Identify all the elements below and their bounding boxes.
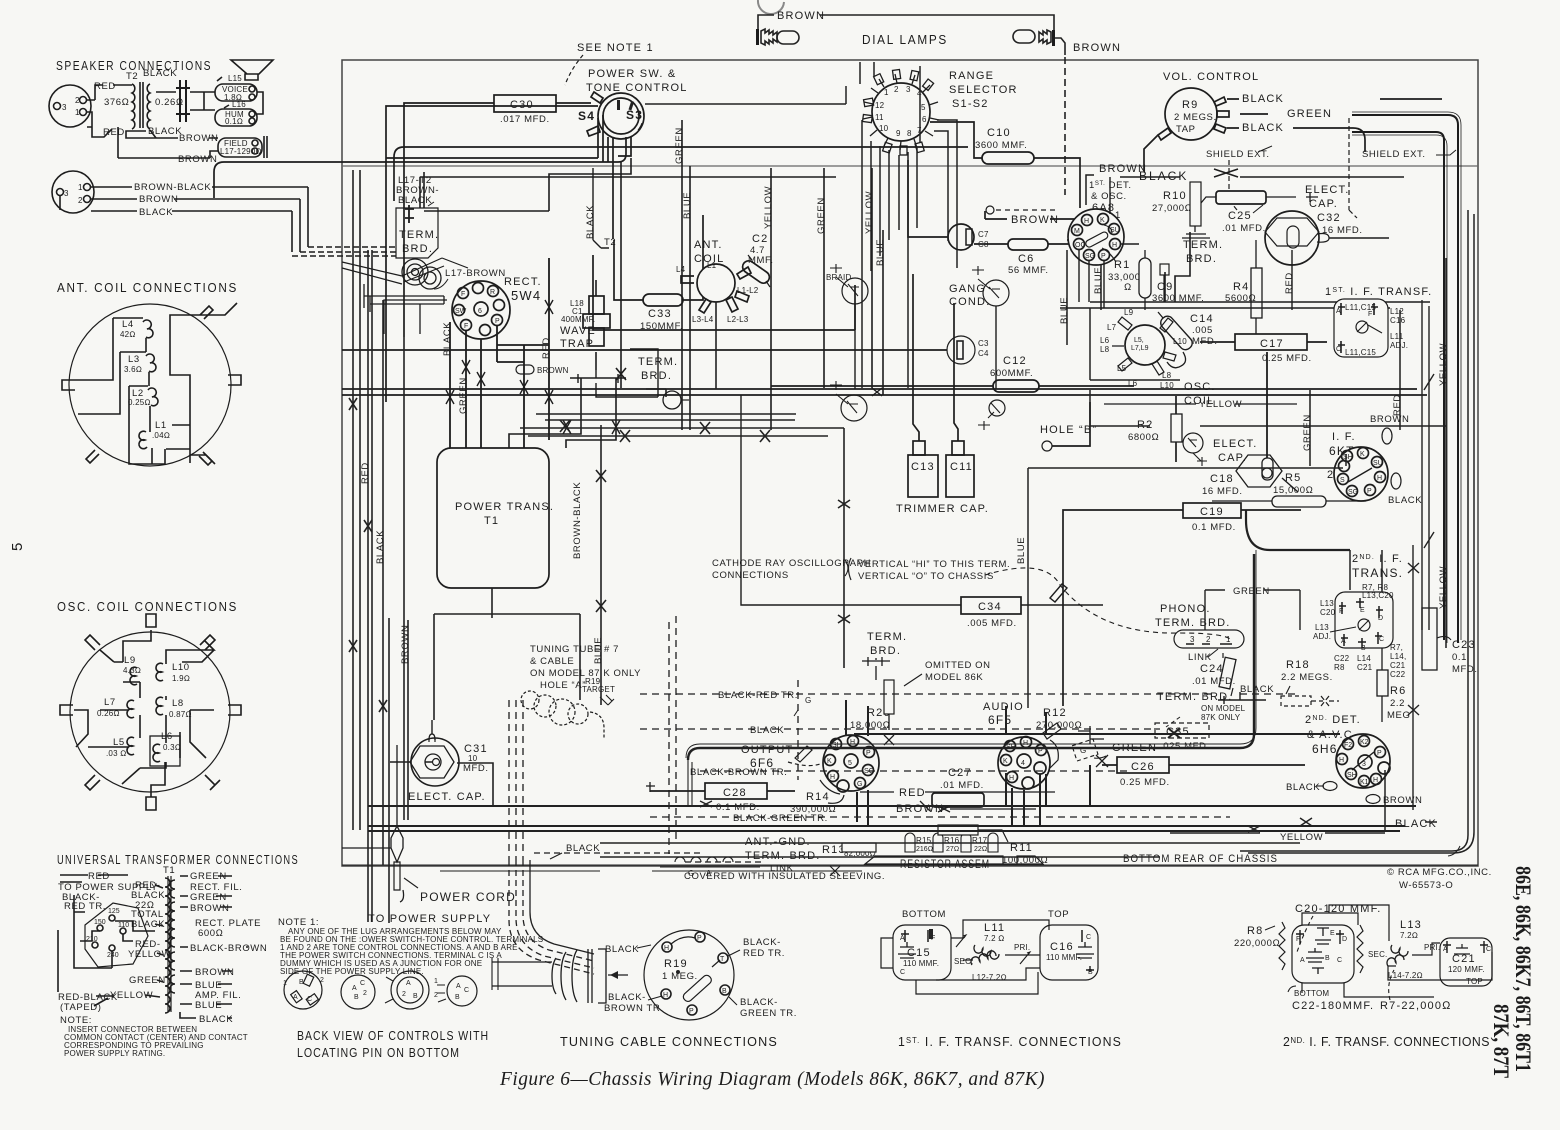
wire: right border curves <box>1240 210 1474 856</box>
svg-text:TARGET: TARGET <box>582 685 615 694</box>
svg-text:5: 5 <box>9 541 26 551</box>
svg-text:SEC.: SEC. <box>1368 950 1387 959</box>
output 6F6 tube <box>741 735 879 794</box>
svg-text:BLUE: BLUE <box>1016 537 1027 564</box>
svg-text:CONNECTIONS: CONNECTIONS <box>712 570 789 581</box>
svg-text:0.1: 0.1 <box>1452 652 1467 663</box>
svg-text:TRANS.: TRANS. <box>1352 566 1403 580</box>
svg-text:376Ω: 376Ω <box>104 97 130 108</box>
rect 5W4 tube <box>452 276 542 339</box>
svg-text:TERM. BRD.: TERM. BRD. <box>1155 617 1231 629</box>
svg-text:K1: K1 <box>1360 779 1369 786</box>
svg-text:POWER SUPPLY RATING.: POWER SUPPLY RATING. <box>64 1049 165 1058</box>
svg-text:240: 240 <box>107 952 119 959</box>
svg-text:125: 125 <box>108 908 120 915</box>
svg-text:BLACK-GREEN TR.: BLACK-GREEN TR. <box>733 813 828 824</box>
svg-text:RED: RED <box>94 81 116 92</box>
svg-text:C17: C17 <box>1260 338 1284 350</box>
svg-text:A: A <box>1300 957 1305 964</box>
svg-text:OUTPUT: OUTPUT <box>741 744 793 756</box>
svg-text:BLACK: BLACK <box>375 530 386 564</box>
svg-text:R8: R8 <box>1334 663 1345 672</box>
C23 <box>1422 608 1478 675</box>
svg-text:RED: RED <box>103 127 125 138</box>
svg-text:T: T <box>720 956 725 963</box>
svg-text:2: 2 <box>1327 469 1334 481</box>
svg-text:H: H <box>1339 757 1344 764</box>
svg-text:BROWN: BROWN <box>190 903 229 914</box>
svg-text:ELECT. CAP.: ELECT. CAP. <box>408 791 486 803</box>
svg-text:K: K <box>1360 451 1365 458</box>
lugs <box>60 614 241 810</box>
svg-text:SG: SG <box>1085 253 1095 260</box>
svg-text:C25: C25 <box>1228 210 1252 222</box>
1st IF transf connections <box>881 909 1098 994</box>
svg-text:VERTICAL “HI” TO THIS TERM.: VERTICAL “HI” TO THIS TERM. <box>858 559 1010 570</box>
svg-text:.017 MFD.: .017 MFD. <box>500 114 550 125</box>
svg-text:L8: L8 <box>1162 371 1172 380</box>
svg-text:C: C <box>1486 946 1491 953</box>
svg-text:BROWN: BROWN <box>139 194 178 205</box>
svg-text:C21: C21 <box>1390 661 1406 670</box>
svg-text:BLACK: BLACK <box>143 68 177 79</box>
svg-text:L3: L3 <box>128 354 140 365</box>
C19 <box>1063 503 1301 706</box>
svg-text:G: G <box>805 696 811 705</box>
svg-text:H: H <box>830 774 835 781</box>
svg-text:Figure 6—Chassis Wiring Diagra: Figure 6—Chassis Wiring Diagram (Models … <box>499 1068 1045 1090</box>
wire: main chassis border <box>342 60 1478 866</box>
svg-text:& CABLE: & CABLE <box>530 656 574 667</box>
svg-text:R9: R9 <box>1182 99 1198 111</box>
brown pill <box>516 365 534 374</box>
svg-text:GREEN: GREEN <box>674 127 685 164</box>
cathode ray text <box>712 558 1232 641</box>
lamp left <box>756 29 799 45</box>
svg-text:BLACK-: BLACK- <box>608 992 646 1003</box>
svg-text:5W4: 5W4 <box>511 288 541 303</box>
svg-text:F2: F2 <box>1344 742 1352 749</box>
svg-text:9: 9 <box>896 129 901 138</box>
svg-text:PHONO.: PHONO. <box>1160 603 1211 615</box>
wires speaker plug to T2 <box>87 85 156 138</box>
svg-text:P: P <box>495 318 500 325</box>
wire: hatched shield bundle center <box>686 550 1256 806</box>
svg-text:ANT. COIL CONNECTIONS: ANT. COIL CONNECTIONS <box>57 281 238 295</box>
svg-text:150: 150 <box>94 919 106 926</box>
svg-text:600Ω: 600Ω <box>198 928 224 939</box>
svg-text:SHIELD EXT.: SHIELD EXT. <box>1362 149 1426 160</box>
svg-text:BLACK: BLACK <box>1139 169 1188 183</box>
svg-text:2ND. I. F.: 2ND. I. F. <box>1352 553 1403 565</box>
power transformer T1 <box>437 448 549 588</box>
svg-text:POWER CORD: POWER CORD <box>420 890 516 904</box>
2nd IF transf connections <box>1234 903 1492 1012</box>
svg-text:1: 1 <box>75 108 80 117</box>
svg-text:L14: L14 <box>1357 654 1371 663</box>
R18 <box>1281 659 1339 706</box>
tuning cable curls <box>521 691 604 738</box>
svg-text:P: P <box>866 750 871 757</box>
svg-text:C20: C20 <box>1320 608 1336 617</box>
svg-text:G: G <box>857 781 862 788</box>
svg-text:L1: L1 <box>155 420 167 431</box>
svg-text:2: 2 <box>434 992 438 999</box>
svg-text:C: C <box>1379 636 1384 643</box>
svg-text:H: H <box>1023 740 1028 747</box>
svg-text:BLACK-: BLACK- <box>740 997 778 1008</box>
svg-text:L11: L11 <box>984 922 1005 934</box>
wave trap <box>560 280 610 370</box>
svg-text:C19: C19 <box>1200 506 1224 518</box>
R15 R16 R17 <box>905 833 998 853</box>
svg-text:SH: SH <box>1347 772 1357 779</box>
svg-text:LOCATING PIN ON BOTTOM: LOCATING PIN ON BOTTOM <box>297 1045 460 1060</box>
svg-text:RECT.: RECT. <box>504 276 542 288</box>
svg-text:C4: C4 <box>978 349 989 358</box>
svg-text:P: P <box>689 1008 694 1015</box>
svg-text:2ND. DET.: 2ND. DET. <box>1305 714 1361 726</box>
svg-text:ANT.-GND.: ANT.-GND. <box>745 836 811 848</box>
svg-text:BRD.: BRD. <box>641 370 672 382</box>
svg-text:W-65573-O: W-65573-O <box>1399 880 1453 891</box>
svg-text:R8: R8 <box>1247 925 1263 937</box>
svg-text:BRD.: BRD. <box>402 243 433 255</box>
ANT COIL CONNECTIONS <box>57 281 241 466</box>
svg-text:SEE NOTE 1: SEE NOTE 1 <box>577 42 654 54</box>
svg-text:1 MEG.: 1 MEG. <box>662 971 698 982</box>
svg-text:COVERED WITH INSULATED SLEEVIN: COVERED WITH INSULATED SLEEVING. <box>684 871 885 882</box>
svg-text:6H6: 6H6 <box>1312 742 1338 756</box>
R2 <box>1128 396 1182 462</box>
dashed TR wires <box>509 616 1300 860</box>
svg-text:1: 1 <box>1226 635 1231 644</box>
elect cap C32 <box>1265 184 1389 310</box>
svg-text:L11: L11 <box>1390 332 1404 341</box>
node: main left area <box>342 120 886 588</box>
svg-text:BROWN: BROWN <box>1073 42 1121 54</box>
svg-text:H: H <box>1009 775 1014 782</box>
svg-text:C30: C30 <box>510 99 534 111</box>
svg-text:L15: L15 <box>228 74 242 83</box>
plug P2 <box>52 171 94 213</box>
svg-text:R19: R19 <box>664 958 688 970</box>
svg-text:0.1Ω: 0.1Ω <box>225 117 243 126</box>
svg-text:27,000Ω: 27,000Ω <box>1152 203 1193 214</box>
heavy horizontals below 6A8 <box>1060 232 1430 308</box>
svg-text:ELECT.: ELECT. <box>1213 438 1258 450</box>
svg-text:2: 2 <box>75 96 80 105</box>
svg-text:A: A <box>1341 638 1346 645</box>
svg-text:© RCA MFG.CO.,INC.: © RCA MFG.CO.,INC. <box>1387 867 1492 878</box>
svg-text:GREEN TR.: GREEN TR. <box>740 1008 797 1019</box>
svg-text:R: R <box>490 289 495 296</box>
svg-text:RED TR.: RED TR. <box>743 948 785 959</box>
shield ext left label <box>1206 146 1272 210</box>
svg-text:8: 8 <box>907 129 912 138</box>
terminal left of 5W4 <box>364 284 444 312</box>
svg-text:SU: SU <box>1373 460 1383 467</box>
C28 <box>646 782 795 813</box>
svg-text:1ST. I. F. TRANSF. CONNECTION: 1ST. I. F. TRANSF. CONNECTIONS <box>898 1034 1122 1049</box>
hole B <box>1040 402 1097 451</box>
crossover symbols <box>446 300 553 404</box>
svg-text:H: H <box>1084 218 1089 225</box>
elect cap C18 hex <box>1202 352 1298 497</box>
note 1 <box>278 917 543 976</box>
svg-text:F: F <box>464 323 468 330</box>
C2 capacitor <box>740 233 773 287</box>
svg-text:L17-BROWN: L17-BROWN <box>445 268 506 279</box>
svg-text:BLACK: BLACK <box>139 207 173 218</box>
svg-text:& OSC.: & OSC. <box>1091 191 1127 202</box>
wire: center vertical bundle under T1 <box>434 302 850 806</box>
2nd IF trans <box>1313 553 1406 679</box>
svg-text:RED: RED <box>899 787 926 799</box>
svg-text:22Ω: 22Ω <box>974 846 987 853</box>
svg-text:BLACK: BLACK <box>1242 93 1284 105</box>
capacitor C30 <box>404 95 591 337</box>
svg-text:BLACK: BLACK <box>1240 684 1274 695</box>
svg-text:TOP: TOP <box>1466 977 1483 986</box>
svg-text:R10: R10 <box>1163 190 1187 202</box>
bottom view of 2nd IF <box>1292 925 1354 983</box>
svg-text:T1: T1 <box>484 515 499 527</box>
svg-text:H: H <box>1377 475 1382 482</box>
svg-text:K: K <box>1003 758 1008 765</box>
wires to field <box>118 127 218 158</box>
internal wiring <box>75 303 237 464</box>
svg-text:1: 1 <box>283 980 287 987</box>
svg-text:L4: L4 <box>122 319 134 330</box>
svg-text:12: 12 <box>875 101 885 110</box>
svg-text:2: 2 <box>320 977 324 984</box>
svg-text:VOL. CONTROL: VOL. CONTROL <box>1163 71 1259 83</box>
svg-text:6800Ω: 6800Ω <box>1128 432 1159 443</box>
four control circles <box>283 971 477 1009</box>
svg-text:R5: R5 <box>1285 472 1301 484</box>
svg-text:T2: T2 <box>604 237 616 248</box>
svg-text:HOLE “A”: HOLE “A” <box>540 680 586 691</box>
svg-text:B: B <box>722 988 727 995</box>
svg-text:BLACK: BLACK <box>1242 122 1284 134</box>
svg-text:6: 6 <box>922 115 927 124</box>
svg-text:R11: R11 <box>1010 842 1033 854</box>
svg-text:S1-S2: S1-S2 <box>952 98 989 110</box>
svg-text:L5,: L5, <box>1134 337 1144 344</box>
svg-text:POWER TRANS.: POWER TRANS. <box>455 501 554 513</box>
svg-text:BLACK: BLACK <box>1395 818 1437 830</box>
svg-text:YELLOW: YELLOW <box>1280 832 1323 843</box>
svg-text:TERM. BRD.: TERM. BRD. <box>745 850 821 862</box>
svg-text:0.1 MFD.: 0.1 MFD. <box>716 802 760 813</box>
svg-text:R7,: R7, <box>1390 643 1403 652</box>
svg-text:D: D <box>1378 615 1383 622</box>
svg-text:R7-22,000Ω: R7-22,000Ω <box>1380 1000 1452 1012</box>
wire: selector verticals <box>645 62 957 388</box>
transformer T2 speaker <box>104 68 184 129</box>
node: dial lamps group <box>756 0 1121 195</box>
wire: left border bundle <box>349 170 411 923</box>
G box dashed <box>1072 739 1098 761</box>
svg-text:ANT.: ANT. <box>694 239 723 251</box>
svg-text:BLACK: BLACK <box>442 322 453 356</box>
C3 C4 trimmer <box>342 336 989 364</box>
C26 <box>1102 757 1305 788</box>
svg-text:C22: C22 <box>1390 670 1406 679</box>
svg-text:C10: C10 <box>987 127 1011 139</box>
svg-text:BLACK-BROWN: BLACK-BROWN <box>190 943 267 954</box>
svg-text:WAVE: WAVE <box>560 325 596 337</box>
svg-text:S: S <box>1340 477 1345 484</box>
term brd center <box>862 631 907 680</box>
svg-text:GREEN: GREEN <box>816 197 827 234</box>
svg-text:YELLOW: YELLOW <box>1438 343 1449 386</box>
svg-text:BACK VIEW OF CONTROLS WITH: BACK VIEW OF CONTROLS WITH <box>297 1028 489 1043</box>
svg-text:OSC.: OSC. <box>1184 381 1216 393</box>
L14 coil <box>1387 955 1404 966</box>
svg-text:TERM.: TERM. <box>1183 239 1223 251</box>
svg-text:I. F.: I. F. <box>1332 431 1356 443</box>
svg-text:GREEN: GREEN <box>1287 108 1332 120</box>
svg-text:2: 2 <box>78 196 83 205</box>
svg-text:H: H <box>664 945 669 952</box>
svg-text:(TAPED): (TAPED) <box>60 1002 102 1013</box>
svg-text:L7: L7 <box>1107 323 1117 332</box>
svg-text:T1: T1 <box>163 865 175 876</box>
svg-text:TERM.: TERM. <box>399 229 439 241</box>
svg-text:C34: C34 <box>978 601 1002 613</box>
svg-text:BLACK-: BLACK- <box>743 937 781 948</box>
svg-text:16 MFD.: 16 MFD. <box>1322 225 1363 236</box>
yellow verticals right <box>1310 258 1446 648</box>
svg-text:C6: C6 <box>1018 253 1034 265</box>
svg-text:H: H <box>850 739 855 746</box>
svg-text:BOTTOM: BOTTOM <box>902 909 946 920</box>
C27 <box>932 767 984 807</box>
svg-text:BLUE: BLUE <box>593 637 604 664</box>
svg-text:C: C <box>1336 346 1341 353</box>
svg-text:C11: C11 <box>950 461 973 473</box>
svg-text:H: H <box>1112 242 1117 249</box>
svg-text:3: 3 <box>906 85 911 94</box>
svg-text:7.2 Ω: 7.2 Ω <box>984 934 1005 943</box>
svg-text:1: 1 <box>434 978 438 985</box>
svg-text:PRI.: PRI. <box>1014 943 1030 952</box>
resistor assem <box>865 856 1043 871</box>
capacitor C6 <box>974 239 1086 276</box>
svg-text:3: 3 <box>64 189 69 198</box>
svg-text:RANGE: RANGE <box>949 70 994 82</box>
svg-text:TERM. BRD.: TERM. BRD. <box>1157 691 1233 703</box>
svg-text:2.2 MEGS.: 2.2 MEGS. <box>1281 672 1333 683</box>
svg-text:400MMF.: 400MMF. <box>561 315 595 324</box>
svg-text:F: F <box>1296 936 1300 943</box>
power cord <box>342 745 516 925</box>
svg-text:BROWN TR.: BROWN TR. <box>604 1003 664 1014</box>
svg-text:216Ω: 216Ω <box>916 846 933 853</box>
svg-text:110: 110 <box>118 922 129 929</box>
svg-text:E: E <box>1360 607 1365 614</box>
top view box <box>1440 938 1492 986</box>
wire brown top <box>758 15 1054 34</box>
svg-text:0.25 MFD.: 0.25 MFD. <box>1120 777 1170 788</box>
svg-text:120 MMF.: 120 MMF. <box>1448 965 1485 974</box>
svg-text:YELLOW: YELLOW <box>1438 566 1449 609</box>
trimmer caps C13 C11 <box>896 274 989 515</box>
svg-text:.03 Ω: .03 Ω <box>106 749 127 758</box>
svg-text:GREEN: GREEN <box>1233 586 1270 597</box>
svg-text:S4: S4 <box>578 109 595 123</box>
svg-text:L6: L6 <box>1100 336 1110 345</box>
svg-text:56 MMF.: 56 MMF. <box>1008 265 1049 276</box>
svg-text:RED: RED <box>541 337 552 359</box>
svg-text:L13: L13 <box>1315 623 1329 632</box>
capacitor C7 C8 trimmer <box>908 160 989 250</box>
svg-text:L12-7.2Ω: L12-7.2Ω <box>972 973 1007 982</box>
tuning cable circle R19 <box>604 930 797 1020</box>
svg-text:BLACK: BLACK <box>199 1014 233 1025</box>
svg-text:BLACK: BLACK <box>585 205 596 239</box>
OSC COIL CONNECTIONS <box>57 600 241 810</box>
svg-text:.01 MFD.: .01 MFD. <box>1192 676 1236 687</box>
svg-text:R18: R18 <box>1286 659 1310 671</box>
svg-text:L3-L4: L3-L4 <box>692 315 714 324</box>
svg-text:L9: L9 <box>1124 308 1134 317</box>
svg-text:L13: L13 <box>1400 919 1422 931</box>
audio 6F5 tube <box>983 701 1061 789</box>
svg-text:CAP.: CAP. <box>1309 198 1338 210</box>
wiring <box>1302 905 1492 997</box>
svg-text:5: 5 <box>921 103 926 112</box>
svg-text:C15: C15 <box>907 947 931 959</box>
oscillograph brace <box>849 558 852 580</box>
svg-text:A: A <box>406 980 411 987</box>
svg-text:RED: RED <box>1392 394 1403 416</box>
svg-text:TERM.: TERM. <box>867 631 907 643</box>
svg-text:P: P <box>1367 488 1372 495</box>
svg-text:.01 MFD.: .01 MFD. <box>940 780 984 791</box>
svg-text:BRAID: BRAID <box>826 273 851 282</box>
1st IF transformer <box>1325 286 1432 357</box>
R14 <box>790 787 1055 815</box>
C24 + link + phono <box>1155 603 1274 704</box>
svg-text:C14: C14 <box>1190 313 1214 325</box>
svg-text:RED TR.: RED TR. <box>64 901 106 912</box>
svg-text:2: 2 <box>1206 635 1211 644</box>
svg-text:B: B <box>413 993 418 1000</box>
svg-text:2: 2 <box>363 990 367 997</box>
svg-text:SG: SG <box>1348 489 1358 496</box>
svg-text:TRIMMER CAP.: TRIMMER CAP. <box>896 503 989 515</box>
plug P1 <box>49 85 91 127</box>
elect cap C31 <box>390 720 489 803</box>
svg-text:RED: RED <box>360 462 371 484</box>
C17 <box>1200 334 1327 364</box>
svg-text:B: B <box>455 994 460 1001</box>
svg-text:DIAL LAMPS: DIAL LAMPS <box>862 33 948 47</box>
C33 <box>614 215 703 332</box>
svg-text:TUNING CABLE CONNECTIONS: TUNING CABLE CONNECTIONS <box>560 1034 778 1049</box>
svg-text:C22: C22 <box>1334 654 1350 663</box>
svg-text:R4: R4 <box>1233 281 1249 293</box>
svg-text:ELECT.: ELECT. <box>1305 184 1350 196</box>
svg-text:11: 11 <box>875 113 884 122</box>
svg-text:YELLOW: YELLOW <box>128 949 171 960</box>
term board TB1 <box>342 175 506 289</box>
svg-text:C18: C18 <box>1210 473 1234 485</box>
voice coil box L15 <box>215 74 257 102</box>
